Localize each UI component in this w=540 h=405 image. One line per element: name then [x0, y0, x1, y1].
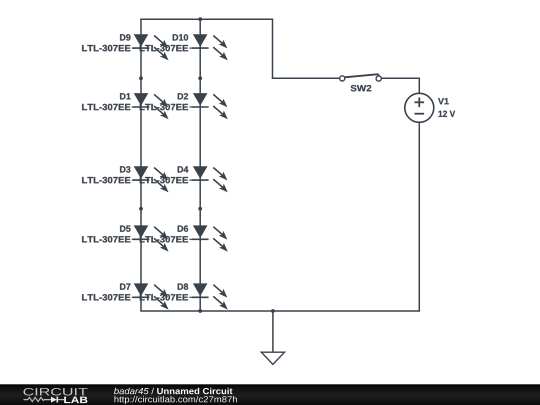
value LTL-307EE of D5: [82, 236, 141, 242]
value LTL-307EE of D9: [82, 45, 141, 51]
LED D8: [192, 283, 228, 309]
value LTL-307EE of D2: [140, 104, 200, 110]
junction right column node B: [198, 207, 202, 211]
switch SW2: [340, 74, 382, 81]
wire switch right lead: [381, 77, 419, 79]
footer title text: [114, 388, 233, 394]
label D5: [120, 226, 130, 232]
wire V1 top lead: [418, 78, 420, 94]
value LTL-307EE of D7: [82, 294, 141, 300]
wire right LED column: [199, 19, 201, 311]
LED D9: [133, 34, 169, 60]
LED D3: [133, 166, 169, 192]
CircuitLab logo: [23, 388, 87, 403]
LED D1: [133, 93, 169, 119]
junction bottom rail / ground: [271, 309, 275, 313]
label D8: [178, 283, 188, 289]
label V1: [438, 98, 449, 104]
value LTL-307EE of D8: [140, 294, 200, 300]
LED D5: [133, 225, 169, 251]
junction bottom rail / right column: [198, 309, 202, 313]
wire switch left lead: [272, 77, 340, 79]
label D7: [120, 284, 130, 290]
footer bar: [0, 384, 540, 405]
LED D7: [133, 283, 169, 309]
ground: [261, 352, 284, 364]
junction left column node B: [139, 207, 143, 211]
label D3: [120, 166, 130, 172]
LED D10: [192, 34, 228, 60]
value LTL-307EE of D1: [82, 104, 141, 110]
label SW2: [351, 85, 372, 91]
label D10: [173, 34, 188, 40]
value LTL-307EE of D4: [140, 177, 200, 183]
value LTL-307EE of D6: [140, 236, 200, 242]
wire ground stem: [272, 311, 274, 352]
wire top-right drop to switch: [272, 19, 274, 78]
label D4: [178, 166, 189, 172]
LED D6: [192, 225, 228, 251]
value LTL-307EE of D10: [140, 45, 200, 51]
LED D4: [192, 166, 228, 192]
label D6: [178, 225, 188, 231]
wire left LED column: [140, 19, 142, 311]
footer url text: [114, 396, 237, 404]
wire top rail: [140, 18, 273, 20]
label D1: [120, 93, 130, 99]
value 12 V: [439, 111, 456, 117]
label D9: [120, 34, 130, 40]
wire bottom rail: [140, 310, 420, 312]
junction left column node A: [139, 76, 143, 80]
wire V1 bottom lead: [418, 122, 420, 311]
junction right column node A: [198, 76, 202, 80]
value LTL-307EE of D3: [82, 177, 141, 183]
LED D2: [192, 93, 228, 119]
label D2: [178, 93, 188, 99]
junction top rail / right column: [198, 17, 202, 21]
voltage source V1: [405, 93, 434, 122]
